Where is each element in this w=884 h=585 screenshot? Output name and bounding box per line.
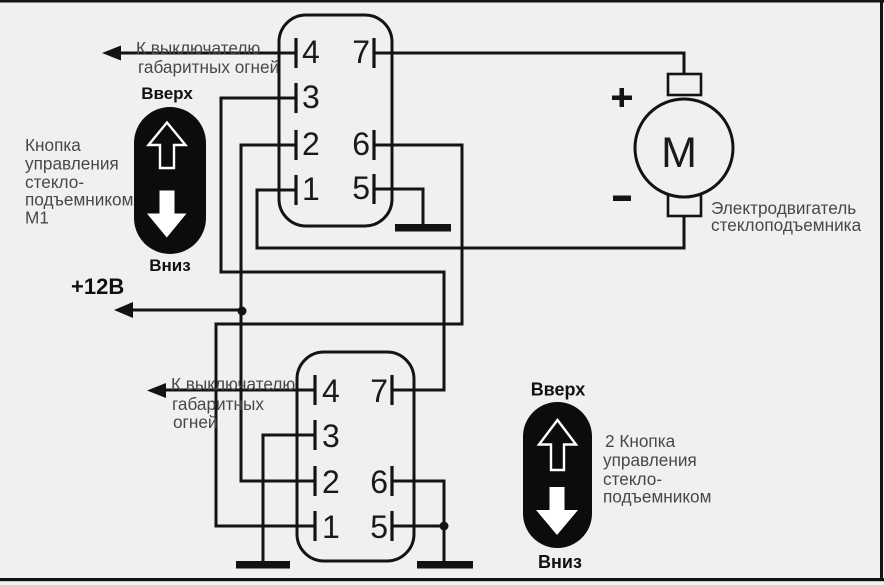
svg-text:М1: М1 [25, 208, 49, 228]
svg-text:габаритных огней: габаритных огней [138, 57, 279, 77]
svg-text:К выключателю: К выключателю [136, 38, 260, 58]
svg-text:5: 5 [352, 170, 370, 206]
svg-text:M: M [661, 129, 697, 177]
svg-text:2: 2 [322, 464, 340, 500]
svg-text:управления: управления [603, 450, 697, 470]
svg-text:5: 5 [370, 509, 388, 545]
svg-text:габаритных: габаритных [172, 394, 264, 414]
svg-text:4: 4 [322, 373, 340, 409]
svg-text:Вниз: Вниз [538, 552, 582, 572]
svg-text:2 Кнопка: 2 Кнопка [605, 431, 676, 451]
svg-text:6: 6 [370, 464, 388, 500]
svg-text:управления: управления [25, 154, 119, 174]
svg-text:1: 1 [322, 509, 340, 545]
svg-text:6: 6 [352, 126, 370, 162]
svg-text:2: 2 [302, 126, 320, 162]
svg-text:1: 1 [302, 171, 320, 207]
svg-text:К выключателю: К выключателю [171, 374, 295, 394]
svg-text:4: 4 [302, 34, 320, 70]
svg-text:3: 3 [302, 79, 320, 115]
svg-text:подъемником: подъемником [603, 487, 711, 507]
svg-text:Вверх: Вверх [531, 380, 586, 400]
svg-text:3: 3 [322, 418, 340, 454]
svg-text:7: 7 [352, 34, 370, 70]
svg-text:Вверх: Вверх [141, 84, 193, 103]
svg-text:стеклоподъемника: стеклоподъемника [711, 215, 862, 235]
svg-text:Кнопка: Кнопка [25, 135, 81, 155]
svg-text:+12В: +12В [71, 274, 124, 299]
svg-text:Вниз: Вниз [149, 256, 190, 275]
svg-text:огней: огней [173, 412, 217, 432]
svg-text:7: 7 [370, 373, 388, 409]
svg-text:подъемником: подъемником [25, 190, 133, 210]
